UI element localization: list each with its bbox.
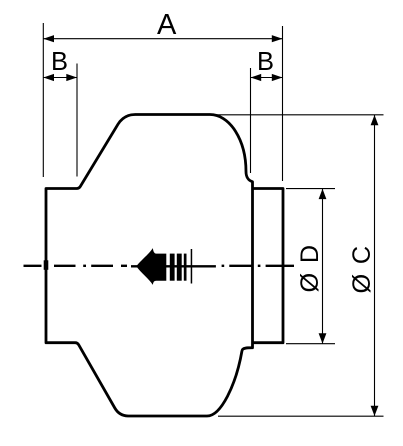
svg-text:B: B	[257, 48, 274, 76]
svg-text:Ø C: Ø C	[348, 245, 376, 294]
svg-text:A: A	[157, 9, 177, 41]
svg-text:Ø D: Ø D	[296, 244, 324, 293]
svg-text:B: B	[51, 48, 68, 76]
